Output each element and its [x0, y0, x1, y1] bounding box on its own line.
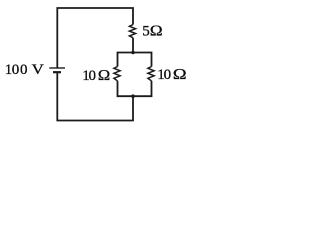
- node top junction dot: [131, 51, 135, 55]
- svg-text:Ω: Ω: [173, 67, 187, 83]
- wire parallel top rail: [118, 53, 152, 67]
- resistor R2 10ohm left zigzag: [114, 67, 120, 81]
- wire bottom loop (junction down + bottom wire + left lower wire): [57, 72, 133, 120]
- svg-text:100: 100: [5, 62, 28, 78]
- svg-text:Ω: Ω: [150, 24, 163, 40]
- svg-text:Ω: Ω: [98, 68, 111, 84]
- battery V1 long plate: [49, 67, 65, 69]
- node bottom junction dot: [131, 94, 135, 98]
- wire right from R1 to top junction: [132, 38, 134, 53]
- svg-text:V: V: [32, 62, 44, 78]
- svg-text:10: 10: [82, 68, 96, 84]
- resistor R1 5ohm zigzag: [129, 25, 135, 38]
- wire parallel bottom rail: [118, 81, 152, 96]
- svg-text:10: 10: [157, 67, 171, 83]
- wire top-left loop (left upper wire + top wire + right upper wire): [57, 8, 133, 68]
- resistor R3 10ohm right zigzag: [148, 67, 154, 81]
- battery V1 short plate: [53, 71, 61, 73]
